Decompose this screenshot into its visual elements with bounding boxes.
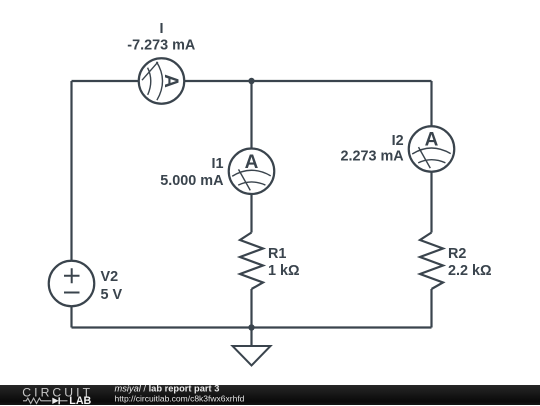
- svg-text:V2: V2: [101, 269, 119, 285]
- svg-text:2.273 mA: 2.273 mA: [340, 149, 404, 165]
- svg-text:I1: I1: [211, 156, 223, 172]
- svg-text:http://circuitlab.com/c8k3fwx6: http://circuitlab.com/c8k3fwx6xrhfd: [115, 393, 245, 403]
- wire middle below R1: [250, 289, 252, 328]
- ammeter I (horizontal): [139, 58, 185, 104]
- svg-text:R1: R1: [268, 246, 286, 262]
- svg-text:A: A: [245, 152, 259, 173]
- wire left vertical top: [70, 81, 72, 261]
- wire middle between I1 and R1: [250, 194, 252, 233]
- ground: [233, 328, 271, 366]
- footer bar: [0, 385, 540, 405]
- resistor R1: [240, 233, 263, 290]
- svg-text:R2: R2: [448, 246, 466, 262]
- svg-text:-7.273 mA: -7.273 mA: [127, 38, 196, 54]
- ammeter I2 (vertical): [409, 126, 455, 172]
- svg-text:5 V: 5 V: [101, 287, 123, 303]
- logo diode symbol: [52, 397, 58, 403]
- voltage source V2: [49, 261, 95, 307]
- svg-text:A: A: [425, 130, 439, 151]
- logo resistor squiggle: [23, 398, 51, 403]
- wire right vertical top: [430, 81, 432, 127]
- wire bottom horizontal: [72, 326, 432, 328]
- wire top-left horizontal: [72, 80, 140, 82]
- svg-text:LAB: LAB: [69, 395, 91, 406]
- wire right below R2: [430, 289, 432, 328]
- ammeter I1 (vertical): [229, 149, 275, 195]
- wire left vertical bottom: [70, 306, 72, 328]
- svg-text:2.2 kΩ: 2.2 kΩ: [448, 263, 492, 279]
- svg-text:1 kΩ: 1 kΩ: [268, 263, 300, 279]
- wire top horizontal from ammeter to right corner: [184, 80, 431, 82]
- junction node top: [248, 78, 254, 84]
- svg-text:5.000 mA: 5.000 mA: [160, 173, 224, 189]
- wire middle vertical top: [250, 81, 252, 149]
- wire right between I2 and R2: [430, 172, 432, 233]
- resistor R2: [420, 233, 443, 290]
- junction node bottom: [248, 324, 254, 330]
- svg-text:A: A: [160, 74, 181, 88]
- svg-text:I2: I2: [392, 133, 404, 149]
- svg-text:I: I: [160, 21, 164, 37]
